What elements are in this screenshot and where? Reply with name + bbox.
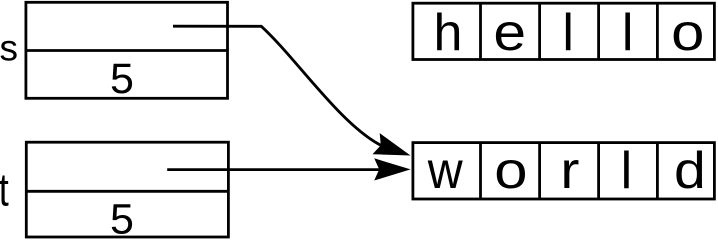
svg-text:w: w — [427, 142, 464, 200]
string array "hello" frame — [413, 3, 715, 59]
svg-text:d: d — [674, 142, 706, 200]
svg-text:r: r — [560, 142, 579, 200]
svg-text:l: l — [622, 4, 634, 62]
pointer wire from s (bends then curves to world) — [173, 26, 381, 145]
string array "world" frame — [413, 143, 715, 199]
svg-text:h: h — [434, 4, 463, 62]
svg-text:5: 5 — [110, 55, 134, 103]
svg-text:l: l — [562, 4, 574, 62]
arrowhead of t pointer — [374, 158, 410, 180]
svg-text:5: 5 — [110, 196, 134, 244]
svg-text:o: o — [494, 141, 527, 199]
arrowhead of s pointer — [373, 133, 411, 155]
svg-text:s: s — [0, 27, 18, 68]
variable t record box — [26, 142, 228, 237]
pointer wire from t (horizontal) — [167, 168, 379, 171]
svg-text:o: o — [671, 3, 704, 61]
svg-text:e: e — [493, 3, 526, 61]
variable s record box — [26, 2, 228, 98]
svg-text:l: l — [621, 142, 633, 200]
svg-text:t: t — [0, 163, 9, 215]
